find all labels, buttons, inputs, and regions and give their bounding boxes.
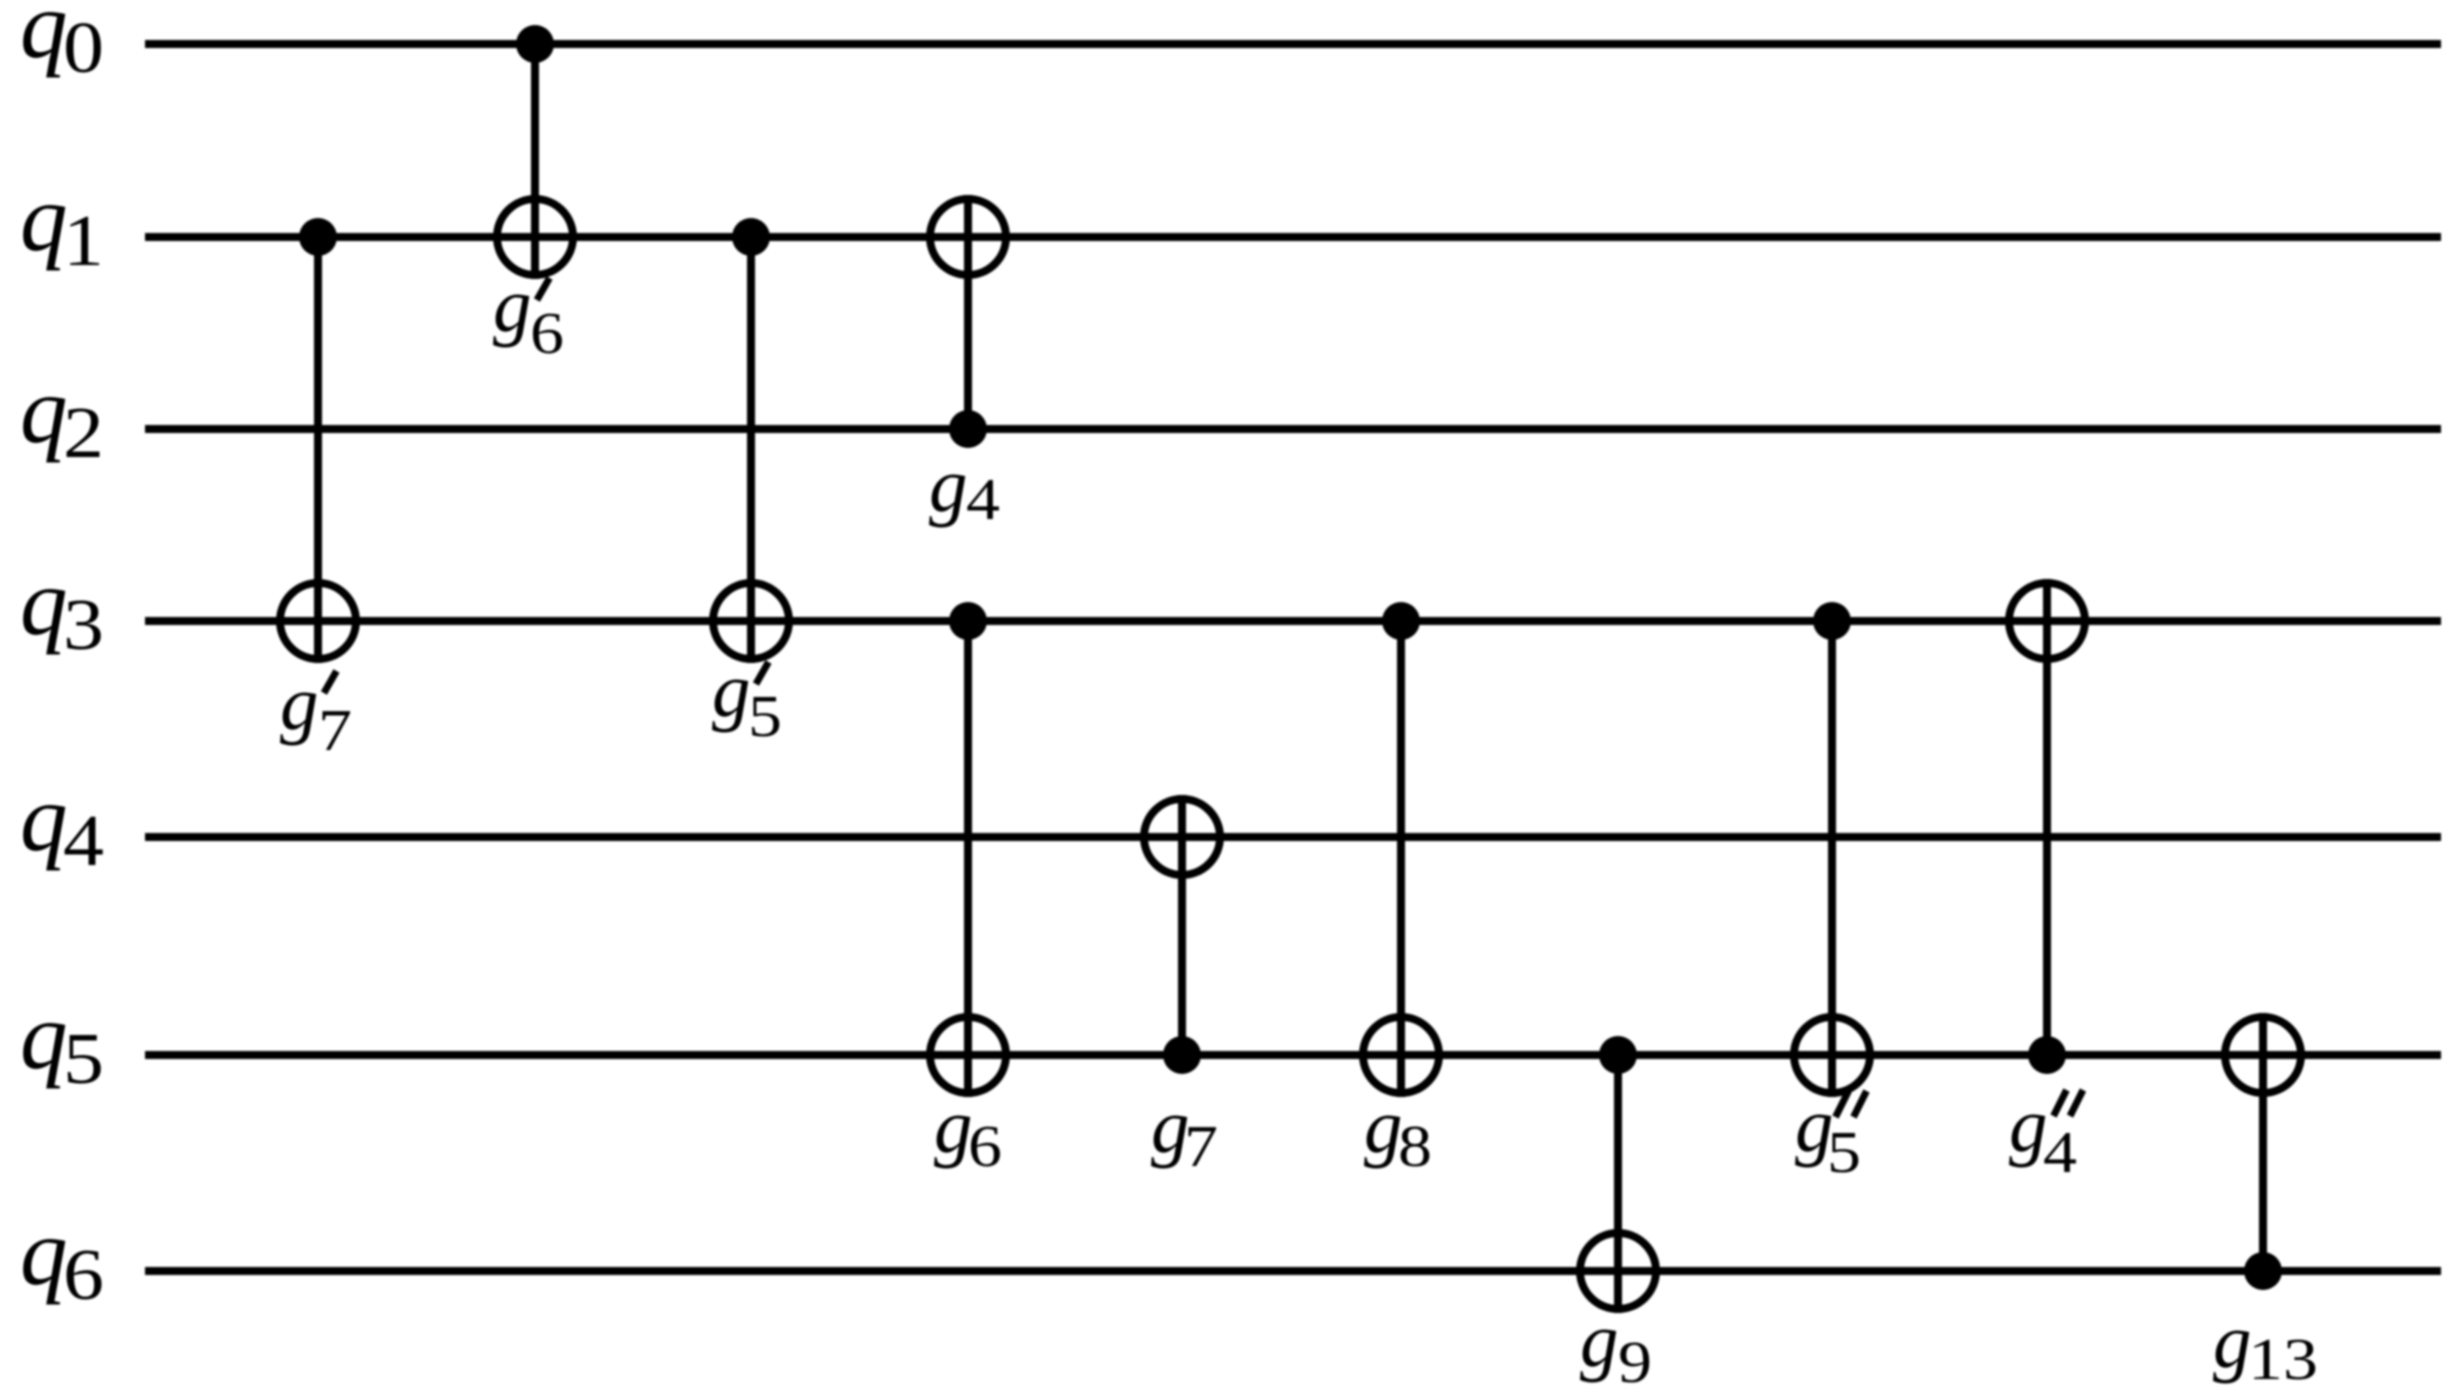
target XOR circle on q5	[930, 1017, 1006, 1093]
svg-text:g: g	[493, 262, 532, 348]
control dot on q5	[1599, 1036, 1637, 1074]
svg-text:q: q	[20, 983, 68, 1089]
wire (vertical connector)	[531, 44, 539, 279]
wire q0	[145, 40, 2441, 48]
control dot on q3	[949, 602, 987, 640]
wire q3	[145, 617, 2441, 625]
label q3	[20, 549, 104, 665]
wire (vertical connector)	[314, 237, 322, 663]
wire (vertical connector)	[2259, 1013, 2267, 1271]
target XOR circle on q4	[1144, 799, 1220, 875]
value label g6	[934, 1083, 1002, 1179]
wire (vertical connector)	[2043, 579, 2051, 1055]
label q4	[20, 765, 104, 881]
control dot on q3	[1813, 602, 1851, 640]
wire (vertical connector)	[1178, 795, 1186, 1055]
value label g4	[929, 442, 1000, 532]
value label g8	[1364, 1083, 1432, 1179]
svg-text:g: g	[1580, 1297, 1619, 1383]
target XOR circle on q3	[280, 583, 356, 659]
target XOR circle on q5	[1794, 1017, 1870, 1093]
wire (vertical connector)	[1397, 621, 1405, 1097]
target XOR circle on q6	[1580, 1233, 1656, 1309]
control dot on q1	[299, 218, 337, 256]
svg-text:q: q	[20, 0, 68, 78]
wire q6	[145, 1267, 2441, 1275]
svg-text:q: q	[20, 165, 68, 271]
wire q4	[145, 833, 2441, 841]
wire q5	[145, 1051, 2441, 1059]
svg-text:2: 2	[63, 392, 104, 473]
svg-text:6: 6	[968, 1113, 1002, 1179]
control dot on q1	[732, 218, 770, 256]
CNOT gate g'5 : control q1, target q3	[713, 218, 789, 663]
value label g13	[2213, 1298, 2318, 1392]
value label g'5	[712, 647, 782, 749]
svg-text:q: q	[20, 549, 68, 655]
svg-text:4: 4	[2043, 1119, 2077, 1185]
target XOR circle on q5	[1363, 1017, 1439, 1093]
label q1	[20, 165, 104, 281]
value label g'6	[493, 262, 564, 366]
CNOT gate g''5 : control q3, target q5	[1794, 602, 1870, 1097]
svg-text:6: 6	[530, 300, 564, 366]
target XOR circle on q1	[930, 199, 1006, 275]
target XOR circle on q5	[2225, 1017, 2301, 1093]
CNOT gate g4 : control q2, target q1	[930, 195, 1006, 448]
control dot on q5	[1163, 1036, 1201, 1074]
value label g9	[1580, 1297, 1652, 1395]
CNOT gate g'7 : control q1, target q3	[280, 218, 356, 663]
CNOT gate g''4 : control q5, target q3	[2009, 579, 2085, 1074]
CNOT gate g6 : control q3, target q5	[930, 602, 1006, 1097]
label q6	[20, 1199, 104, 1315]
svg-text:9: 9	[1618, 1329, 1652, 1391]
svg-text:3: 3	[63, 584, 104, 665]
wire (vertical connector)	[747, 237, 755, 663]
svg-text:g: g	[929, 442, 968, 528]
svg-text:7: 7	[318, 697, 352, 763]
CNOT gate g8 : control q3, target q5	[1363, 602, 1439, 1097]
CNOT gate g13 : control q6, target q5	[2225, 1013, 2301, 1290]
svg-text:1: 1	[63, 200, 104, 281]
CNOT gate g'6 : control q0, target q1	[497, 25, 573, 279]
svg-text:g: g	[712, 647, 751, 733]
wire (vertical connector)	[1828, 621, 1836, 1097]
CNOT gate g9 : control q5, target q6	[1580, 1036, 1656, 1313]
wire q2	[145, 425, 2441, 433]
svg-text:q: q	[20, 765, 68, 871]
label q2	[20, 357, 104, 473]
svg-text:g: g	[1364, 1083, 1403, 1169]
svg-text:5: 5	[1827, 1119, 1861, 1185]
value label g7	[1151, 1083, 1218, 1179]
svg-text:g: g	[280, 660, 319, 746]
control dot on q3	[1382, 602, 1420, 640]
svg-text:0: 0	[63, 7, 104, 88]
svg-text:5: 5	[748, 683, 782, 749]
svg-text:5: 5	[63, 1018, 104, 1099]
value label g''4	[2009, 1082, 2083, 1185]
value label g'7	[280, 660, 352, 763]
svg-text:7: 7	[1184, 1113, 1218, 1179]
label q0	[20, 0, 104, 88]
target XOR circle on q3	[713, 583, 789, 659]
svg-text:13: 13	[2248, 1326, 2318, 1391]
label q5	[20, 983, 104, 1099]
wire q1	[145, 233, 2441, 241]
svg-text:g: g	[2213, 1298, 2252, 1384]
wire (vertical connector)	[964, 195, 972, 429]
value label g''5	[1795, 1082, 1867, 1185]
control dot on q0	[516, 25, 554, 63]
svg-text:6: 6	[63, 1234, 104, 1315]
target XOR circle on q3	[2009, 583, 2085, 659]
svg-text:q: q	[20, 1199, 68, 1305]
control dot on q5	[2028, 1036, 2066, 1074]
CNOT gate g7 : control q5, target q4	[1144, 795, 1220, 1074]
svg-text:4: 4	[63, 800, 104, 881]
control dot on q6	[2244, 1252, 2282, 1290]
control dot on q2	[949, 410, 987, 448]
wire (vertical connector)	[964, 621, 972, 1097]
svg-text:g: g	[934, 1083, 973, 1169]
wire (vertical connector)	[1614, 1055, 1622, 1313]
svg-text:4: 4	[966, 466, 1000, 532]
svg-text:g: g	[2009, 1082, 2048, 1168]
svg-text:8: 8	[1398, 1113, 1432, 1179]
svg-text:q: q	[20, 357, 68, 463]
target XOR circle on q1	[497, 199, 573, 275]
